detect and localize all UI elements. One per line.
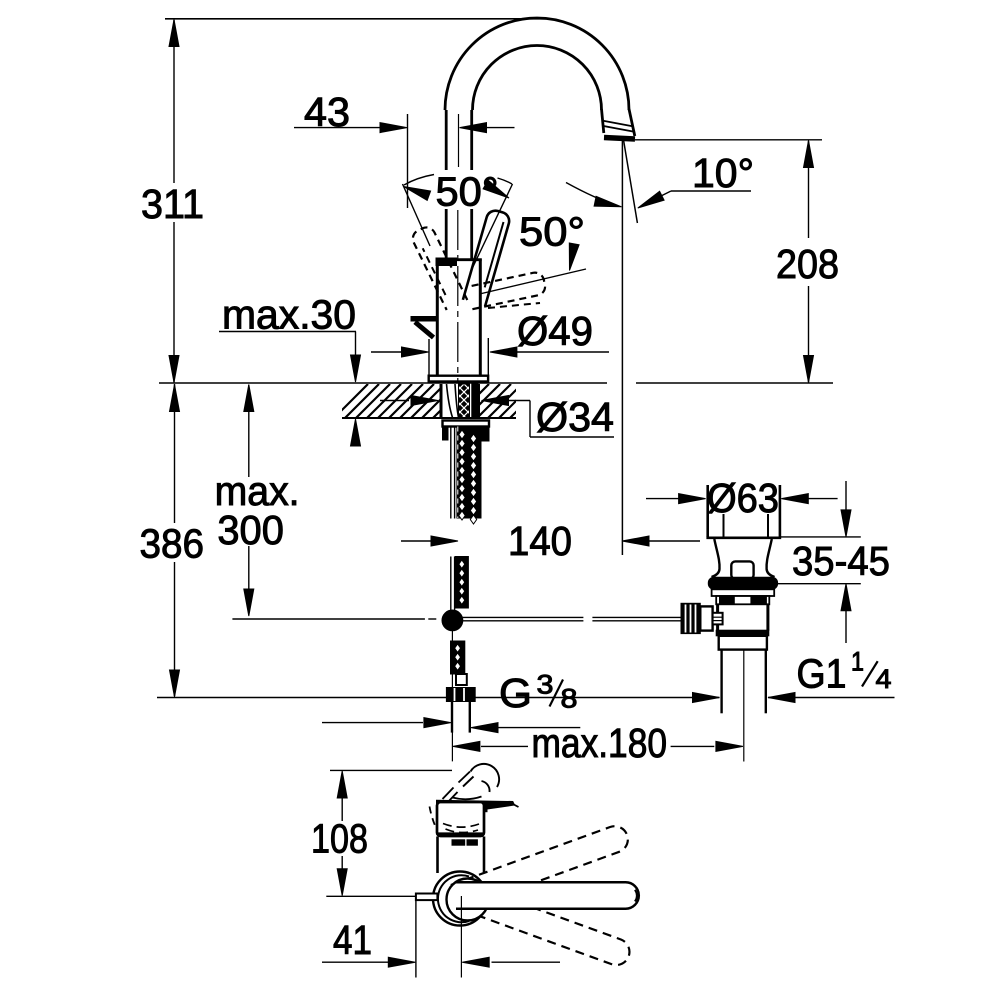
max.30 underline and leader [219, 331, 356, 333]
counter slab hatching [334, 384, 555, 418]
svg-text:50°: 50° [436, 169, 499, 215]
svg-text:208: 208 [776, 241, 839, 287]
hose end collar [456, 674, 467, 685]
pull rod inside hole [472, 384, 478, 418]
svg-text:4: 4 [876, 664, 892, 694]
dimension max.300 vertical line [248, 385, 250, 477]
top view: spout dashed hidden edge [430, 807, 438, 832]
faucet centerline lower [451, 631, 453, 762]
top view: handle (black band) [437, 800, 515, 810]
svg-text:8: 8 [561, 684, 578, 714]
50 degree boundary lines [403, 184, 431, 246]
horizontal pop-up rod [463, 616, 584, 618]
top view: body column walls [436, 837, 439, 874]
faucet base flange [429, 376, 488, 382]
spout tip inner edge [602, 109, 604, 133]
counter top surface line [159, 382, 607, 384]
dimension 140 line [401, 540, 433, 542]
top view: spout inner bottom curve [453, 797, 482, 800]
flexible hose segment C [451, 641, 465, 674]
dimension 35-45 [845, 481, 847, 512]
G1 1/4 arrows [693, 693, 720, 703]
riser pipe left wall [445, 110, 448, 259]
drain flange inner walls [723, 514, 725, 537]
mounting hole left edge [440, 384, 443, 418]
faucet body top: handle base black bar [436, 258, 457, 266]
drain flange (D63) [706, 485, 709, 537]
dimension 386 vertical line [174, 384, 176, 523]
10 degree leader [671, 190, 751, 192]
flexible hose segment B [455, 557, 468, 609]
drain plug tab [731, 561, 753, 579]
top view: escutcheon second arc [438, 875, 469, 922]
lever handle dashed right-down position [468, 273, 545, 310]
top view: column marks [452, 840, 465, 845]
supply hoses inside hole [447, 384, 453, 418]
threaded shank in hole [459, 384, 470, 418]
flexible hose segment A [457, 427, 481, 519]
top view: spout upper edge segments [443, 788, 454, 800]
drain seal collar (black) [708, 577, 777, 589]
mounting nut [443, 421, 490, 427]
svg-text:41: 41 [333, 917, 372, 963]
43 extension lines [407, 114, 409, 208]
top view: 108 reference lines [330, 769, 452, 771]
svg-text:140: 140 [508, 518, 572, 564]
svg-text:386: 386 [140, 521, 205, 567]
extra dashed line under swing handle [488, 303, 540, 308]
dimension 41 extension lines [415, 898, 417, 978]
svg-text:35-45: 35-45 [792, 538, 890, 584]
pull rod lines below counter [450, 427, 452, 519]
dimension 108 vertical line [341, 796, 343, 821]
drain barrel [716, 604, 719, 630]
top view: lever cap inner arc [635, 890, 637, 902]
drain slot band [716, 596, 769, 604]
svg-text:max.30: max.30 [222, 292, 356, 338]
svg-text:108: 108 [311, 815, 368, 861]
svg-text:311: 311 [141, 181, 204, 227]
drain lower step [719, 636, 767, 650]
drain tailpipe [720, 650, 722, 714]
dimension D49 line [371, 351, 402, 353]
dimension D34 arrows [380, 400, 409, 402]
counter slab bottom line [342, 417, 516, 419]
svg-text:Ø63: Ø63 [707, 475, 779, 521]
dimension 50 degree (handle tilt) text [431, 170, 501, 209]
faucet body top edge [457, 258, 482, 261]
D34 label box [529, 401, 531, 438]
top view: body interior dashed arcs [443, 824, 479, 828]
lever handle inner line [485, 222, 504, 287]
top view: lever pivot circle [447, 879, 489, 921]
svg-text:43: 43 [304, 89, 350, 135]
svg-text:1: 1 [851, 647, 864, 677]
linkage pin [713, 613, 723, 625]
top view: lever solid [456, 882, 639, 908]
pull-rod knob (rear) [411, 316, 437, 322]
riser pipe right wall [470, 110, 473, 259]
linkage clevis [700, 606, 712, 630]
G3/8 connector nut [446, 688, 475, 702]
faucet body left wall [436, 259, 439, 376]
spout tip aerator band [602, 121, 634, 127]
lever handle dashed left position [413, 227, 467, 310]
svg-text:10°: 10° [692, 150, 754, 196]
top view: body bottom thick edge [438, 832, 484, 837]
svg-text:G: G [499, 670, 532, 716]
bottom reference line [157, 697, 447, 699]
10 degree arc arrow [566, 183, 617, 206]
G3/8 leader lines [475, 727, 581, 729]
max.180 arrows [481, 745, 528, 747]
svg-text:Ø34: Ø34 [536, 394, 614, 440]
water stream 10-degree line [624, 141, 638, 224]
50 degree arc segments [404, 175, 434, 186]
spout inner arc [473, 46, 602, 111]
top reference line (spout top level) [165, 18, 546, 20]
spout tip bottom [604, 138, 635, 140]
top view: escutcheon outer circle [433, 872, 487, 926]
top view: spout tip cap right side [482, 781, 490, 792]
drain cone neck [712, 539, 720, 577]
lever handle solid (mid position) [463, 211, 509, 307]
50 degree swing extension line [480, 269, 587, 294]
faucet body right wall [479, 259, 482, 376]
top view: pull rod bar [416, 894, 438, 901]
connector tube [451, 702, 453, 733]
D49 extension lines [428, 339, 430, 376]
dimension 41 line [322, 961, 388, 963]
lever handle dashed left inner line [423, 248, 446, 295]
35-45 reference lines [780, 536, 861, 538]
svg-text:G1: G1 [797, 651, 847, 697]
faucet centerline [457, 210, 459, 383]
dimension 208 vertical line [808, 141, 810, 238]
svg-text:3: 3 [537, 670, 554, 700]
dimension 311 vertical line [173, 20, 175, 183]
top view: spout tip cap arc [471, 764, 500, 787]
mounting hole right edge [477, 384, 480, 418]
top view: faucet body square [437, 802, 484, 836]
spout tip outer edge [629, 109, 635, 136]
linkage thumbscrew knob [681, 603, 700, 633]
top view: lever dashed up position [451, 826, 628, 910]
pull rod ball joint [442, 610, 463, 631]
208 reference line (spout outlet level) [635, 139, 822, 141]
dimension 43 line and arrows [294, 127, 381, 129]
max300 bottom reference line [232, 618, 425, 620]
water stream vertical reference line [621, 140, 623, 555]
dimension D63 arrows [646, 498, 679, 500]
top view: lever dashed down position [453, 882, 630, 965]
spout outer arc [445, 18, 629, 110]
svg-text:max.180: max.180 [532, 720, 668, 766]
drain centerline [743, 650, 745, 762]
svg-text:300: 300 [217, 507, 284, 553]
drain washer [712, 589, 775, 596]
svg-text:Ø49: Ø49 [517, 308, 593, 354]
